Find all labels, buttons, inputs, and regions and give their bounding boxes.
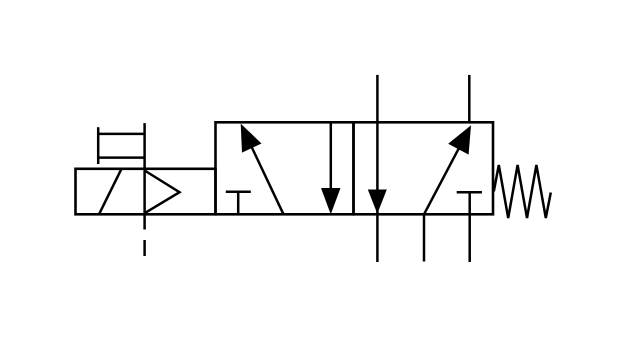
valve position box 1: [216, 122, 354, 214]
box2 diagonal arrow shaft: [424, 129, 469, 214]
box1 blocked port T cap: [226, 191, 251, 194]
box1 blocked port T stem: [237, 192, 240, 215]
box1 flow arrow shaft: [242, 127, 283, 214]
box2 diagonal arrow head: [448, 125, 471, 154]
box2 bottom stub middle: [423, 214, 426, 261]
box1 flow arrow head: [241, 124, 262, 153]
dashed pilot line: [143, 240, 146, 256]
box2 blocked port T cap: [457, 191, 482, 194]
port line 2 top: [468, 75, 471, 122]
coil frame bottom rung: [98, 156, 144, 159]
solenoid box: [76, 169, 216, 215]
box2 blocked port T stem and bottom stub: [468, 192, 471, 262]
solenoid diagonal stroke: [99, 169, 121, 214]
pilot triangle: [145, 171, 180, 214]
box1 down arrow shaft: [330, 122, 333, 196]
port line 1 top: [376, 75, 379, 262]
valve position box 2: [354, 122, 494, 214]
box2 down arrow head: [368, 190, 387, 214]
coil frame top rung: [98, 133, 144, 136]
return spring: [494, 165, 551, 218]
coil frame left bar: [97, 127, 100, 164]
box1 down arrow head: [321, 188, 341, 214]
armature vertical line: [143, 123, 146, 229]
